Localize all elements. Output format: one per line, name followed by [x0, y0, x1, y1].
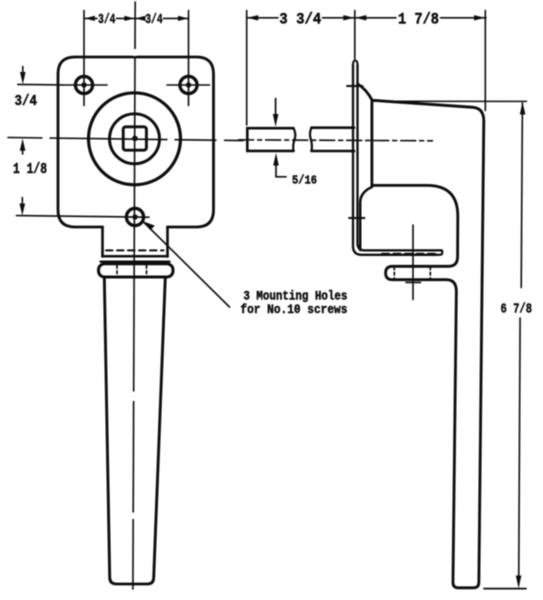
- front view plate outline: [58, 57, 214, 227]
- spindle center line: [239, 140, 433, 141]
- side shelf right end cap: [437, 250, 442, 254]
- svg-text:3 3/4: 3 3/4: [279, 10, 321, 28]
- front grip outline: [104, 277, 165, 584]
- side shelf hidden dashes: [382, 253, 438, 255]
- svg-text:3/4: 3/4: [98, 12, 116, 28]
- 6 7/8 dimension line lower: [519, 318, 520, 585]
- left dim hole-level extension (drawn with hole tick): [18, 83, 63, 86]
- svg-text:3/4: 3/4: [145, 12, 163, 28]
- left dim arrow down to bottom hole line: [21, 198, 23, 208]
- side top dimension line: [247, 17, 486, 19]
- front neck hidden dashed line: [106, 249, 164, 251]
- front square center dot: [132, 136, 138, 142]
- front neck bottom line: [103, 255, 168, 258]
- 6 7/8 dimension line upper: [521, 103, 522, 288]
- 5/16 arrow above: [275, 99, 277, 116]
- 6 7/8 arrow down: [516, 576, 522, 589]
- side plate right line: [358, 65, 442, 251]
- svg-text:3/4: 3/4: [15, 94, 38, 110]
- svg-text:5/16: 5/16: [292, 174, 317, 188]
- svg-text:3 Mounting Holes: 3 Mounting Holes: [243, 290, 347, 304]
- side bend center line: [412, 225, 414, 300]
- hole top-right circle: [180, 76, 197, 93]
- front collar hidden dotted left: [116, 266, 118, 277]
- 6 7/8 bottom extension line: [484, 588, 526, 590]
- front top dimension line: [84, 17, 188, 19]
- leader arrow to bottom hole: [144, 223, 230, 308]
- front horizontal center line: [8, 138, 243, 141]
- hole top-right cross ticks: [167, 84, 210, 86]
- side dim middle extension: [354, 11, 356, 60]
- svg-text:6 7/8: 6 7/8: [501, 302, 533, 318]
- hole bottom extension line: [17, 216, 150, 218]
- side plate left line: [353, 65, 437, 255]
- spindle left piece break edge: [293, 128, 295, 151]
- front collar: [99, 264, 174, 277]
- side dim right extension: [484, 11, 486, 111]
- side handle main outline: [358, 84, 484, 588]
- svg-text:for No.10 screws: for No.10 screws: [240, 303, 347, 317]
- spindle right piece: [312, 128, 355, 151]
- left dim arrow down to hole line: [22, 67, 24, 75]
- hole top-left circle: [75, 76, 92, 93]
- 5/16 arrow below with foot: [273, 153, 279, 166]
- front neck right edge: [166, 227, 169, 257]
- svg-text:1 7/8: 1 7/8: [398, 10, 439, 28]
- left dim arrow up to center line: [20, 139, 26, 151]
- hole bottom circle: [126, 208, 143, 225]
- spindle right piece break edge: [310, 128, 312, 151]
- arrow left at 84: [85, 16, 95, 21]
- front boss inner circle: [110, 114, 160, 164]
- arrows back-to-back at 355: [343, 15, 354, 20]
- 6 7/8 arrow up: [520, 102, 526, 115]
- front spindle square: [123, 127, 146, 150]
- side plate tick bottom: [349, 217, 365, 219]
- arrows back-to-back at center: [124, 16, 134, 21]
- front flange line above collar: [101, 260, 170, 262]
- side bell bottom edge: [360, 187, 372, 250]
- side plate tick top: [347, 85, 363, 87]
- side bend center tick: [406, 281, 421, 283]
- svg-text:1 1/8: 1 1/8: [13, 162, 47, 178]
- side collar hidden dotted left: [393, 267, 395, 279]
- front neck left edge: [101, 227, 104, 257]
- side dim left extension: [246, 11, 248, 126]
- front vertical center line: [133, 2, 135, 589]
- 6 7/8 top extension line: [374, 100, 527, 102]
- hole top-left cross ticks: [63, 84, 107, 86]
- arrow right at 485: [474, 15, 485, 20]
- side collar hidden dotted right: [429, 267, 431, 279]
- arrow left at 247: [247, 15, 258, 20]
- side plate top cap: [353, 61, 358, 66]
- spindle left piece: [247, 128, 293, 151]
- arrow right at 188: [178, 16, 188, 21]
- front collar hidden dotted right: [146, 266, 148, 277]
- front boss outer circle: [89, 93, 181, 185]
